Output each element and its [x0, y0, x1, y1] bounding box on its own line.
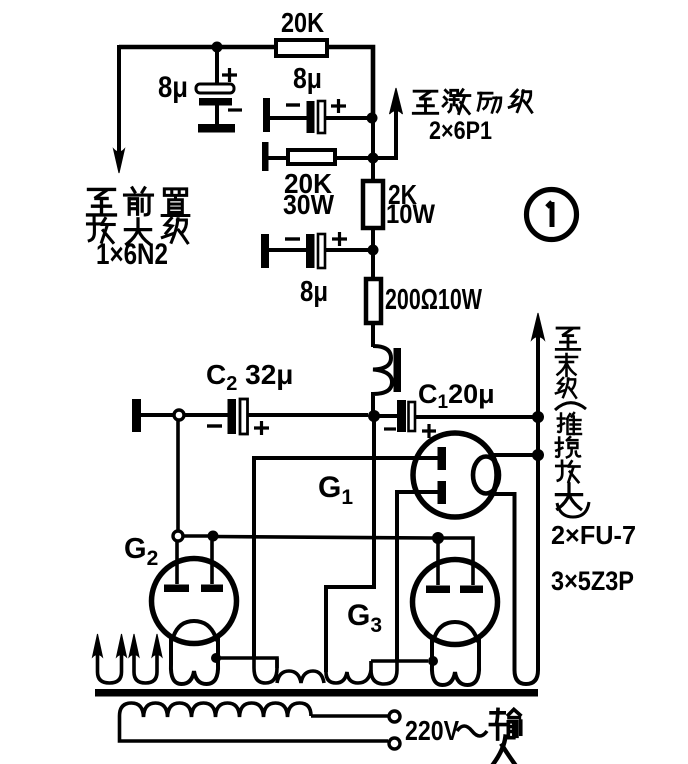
wire: long horizontal to T2 plate junction [213, 537, 433, 539]
svg-text:2×6P1: 2×6P1 [429, 117, 492, 145]
wire: rail down to transformer U loop [490, 455, 538, 684]
terminal: 220V input lower [389, 738, 400, 749]
transformer primary coil [120, 703, 312, 739]
node: junction dot T2 plate lead [432, 532, 444, 544]
resistor 200Ω 10W [366, 250, 482, 347]
svg-text:8μ: 8μ [300, 276, 328, 308]
svg-text:1×6N2: 1×6N2 [96, 238, 168, 271]
resistor 20K 30W [262, 142, 368, 220]
transformer winding deep U (right tap) [371, 660, 397, 684]
wire: U1 bottom plate lead down to transformer [397, 492, 438, 660]
arrow: down arrow to preamp stage [114, 45, 125, 173]
svg-text:8μ: 8μ [293, 63, 322, 95]
node 至末级(推挽放大) vertical text [551, 328, 636, 596]
tube T2 (rectifier, bottom right) [413, 538, 498, 685]
svg-text:200Ω10W: 200Ω10W [385, 284, 482, 316]
transformer secondary scallops (left group) [277, 671, 324, 683]
wire: top rail from left arrow to resistor R1 [119, 45, 276, 50]
node 至激励级 2×6P1 (driver stage) text [413, 90, 531, 145]
wire: primary right lead to terminal [311, 714, 388, 718]
resistor 2K 10W [363, 158, 435, 250]
svg-text:220V: 220V [405, 715, 459, 746]
svg-text:10W: 10W [386, 199, 435, 229]
heater U-arrows pair 1 (to other filaments) [93, 634, 127, 683]
node: junction dot bus / row1 cap [367, 113, 378, 124]
svg-text:C120μ: C120μ [418, 379, 495, 413]
node: junction dot bus / row2 cap [368, 245, 379, 256]
choke iron core bar [394, 348, 402, 392]
wire: branch to excitation arrow [373, 104, 396, 158]
transformer winding deep U (left tap) [254, 655, 277, 683]
svg-text:C2 32μ: C2 32μ [206, 359, 293, 395]
svg-text:2×FU-7: 2×FU-7 [551, 520, 636, 550]
wire: C1 to output rail [415, 415, 533, 419]
arrow 至激励级 (to driver stage) [390, 88, 403, 114]
label 220V~ 输入 (mains input) [405, 709, 521, 764]
wire: U1 plate output to rail [491, 453, 533, 457]
node: junction dot bus / 20K30W / excitation branch [368, 153, 379, 164]
svg-text:30W: 30W [283, 189, 335, 220]
wire: bus between row1 cap and 20K30W tap [371, 118, 375, 158]
wire: G2 filament to winding U [216, 658, 277, 668]
wire: primary left lead to lower terminal [120, 739, 389, 741]
wire: resistor R1 right to main bus corner [327, 47, 373, 118]
node 至前置放大级 1×6N2 (to preamp stage) text [88, 188, 189, 271]
node A (open circle junction, C2 row) [174, 410, 184, 420]
node: junction dot at top rail / C 8u tap [212, 42, 223, 53]
terminal: 220V input upper [389, 711, 400, 722]
resistor 20K (top) [276, 7, 327, 56]
circled 1 figure number [527, 190, 577, 240]
wire: node A to C2 [184, 413, 228, 417]
node: junction dot choke bottom / C1 / bus [368, 410, 380, 422]
node: junction dot T2 filament tap [428, 656, 438, 666]
wire: node B to G2 right grid junction [183, 534, 208, 538]
wire: C2 to bus junction [247, 413, 368, 417]
inductor L1 (filter choke) [373, 346, 392, 416]
capacitor 8u (filter cap at preamp node) [158, 47, 242, 124]
capacitor 8u (row 2 electrolytic, horizontal) [261, 232, 368, 308]
wire: rail down segment [536, 417, 540, 455]
transformer core bar [95, 689, 538, 697]
wire: U1 top plate lead to left vertical [254, 458, 438, 657]
wire: T2 filament tap to winding [371, 659, 428, 663]
tube G2 (rectifier, bottom left) [152, 541, 237, 684]
capacitor C1 20u [374, 379, 495, 438]
svg-text:20K: 20K [281, 7, 324, 38]
transformer secondary scallops (middle group) [326, 670, 371, 683]
wire: left terminal to node circle [141, 413, 174, 417]
node: junction dot G2 filament tap [211, 653, 221, 663]
arrow 至末级 output rail (up arrow) [532, 313, 545, 417]
terminal bar (left end of C2 row) [132, 399, 141, 432]
node B (open circle junction above G2) [173, 531, 183, 541]
capacitor C2 32u [206, 359, 293, 435]
wire: main bus down from C1/C2 junction to winding tap [326, 416, 374, 672]
node: junction dot G2 right lead [208, 531, 219, 542]
svg-text:3×5Z3P: 3×5Z3P [551, 566, 634, 596]
node: junction dot rail / U1 plate output [532, 449, 544, 461]
heater U-arrows pair 2 (to other filaments) [129, 634, 162, 683]
capacitor 8u (row 1 electrolytic, horizontal) [263, 63, 368, 133]
tube U1 (rectifier, top right) [413, 433, 499, 517]
wire: node A down to node B [176, 420, 180, 531]
svg-text:8μ: 8μ [158, 71, 188, 104]
ground [198, 124, 235, 133]
node: junction dot rail / C1 [532, 411, 544, 423]
